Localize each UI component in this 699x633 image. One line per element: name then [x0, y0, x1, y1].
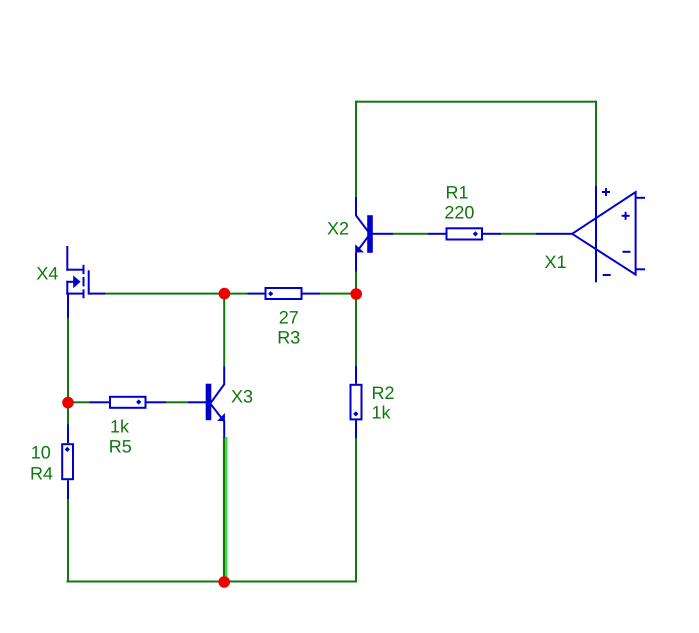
resistor R4 [62, 425, 73, 500]
transistor X3 emitter [211, 404, 225, 438]
op-amp X1 power pin line [595, 186, 597, 283]
resistor R2 [351, 366, 362, 438]
wire node C to R5 [73, 401, 90, 403]
transistor X4 gate [88, 270, 105, 294]
node A junction dot [219, 288, 231, 300]
wire bottom rail [67, 581, 358, 583]
svg-text:220: 220 [444, 203, 474, 223]
wire X3 emitter highlight bright part [225, 437, 227, 577]
transistor X2 body bar [367, 215, 373, 253]
transistor X3 base lead [188, 401, 206, 403]
svg-text:X4: X4 [36, 263, 58, 283]
svg-text:R2: R2 [372, 383, 395, 403]
svg-text:X1: X1 [545, 252, 567, 272]
op-amp X1 input stubs [636, 197, 646, 270]
svg-text:R5: R5 [109, 436, 132, 456]
transistor X2 collector [356, 197, 370, 234]
transistor X2 emitter [356, 234, 370, 271]
wire R4 to bottom rail [67, 499, 69, 583]
wire X4 gate to node A [104, 293, 225, 295]
node C junction dot [62, 397, 74, 409]
svg-text:10: 10 [31, 443, 51, 463]
transistor X4 source leads [66, 281, 83, 318]
svg-text:X2: X2 [327, 218, 349, 238]
wire R2 to bottom rail [355, 438, 357, 583]
svg-text:R4: R4 [30, 464, 53, 484]
transistor X2 emitter arrow [355, 244, 364, 252]
wire R5 to X3 base [166, 401, 188, 403]
transistor X4 drain stub [66, 246, 83, 271]
wire R1 to op-amp output [501, 233, 536, 235]
transistor X3 emitter arrow [217, 413, 225, 421]
svg-text:X3: X3 [231, 386, 253, 406]
op-amp X1 plus input label [622, 212, 630, 220]
op-amp X1 minus power label [603, 274, 611, 276]
wire X3 emitter highlighted dark part [223, 437, 225, 577]
svg-text:1k: 1k [372, 403, 392, 423]
transistor X4 channel bars [83, 265, 85, 299]
node B junction dot [350, 288, 362, 300]
transistor X3 collector [211, 367, 225, 404]
wire node C to R4 [67, 408, 69, 425]
wire node A to R3 [225, 293, 248, 295]
op-amp X1 triangle [572, 192, 636, 275]
transistor X4 arrow [73, 275, 80, 288]
svg-text:R3: R3 [277, 327, 300, 347]
svg-text:27: 27 [279, 307, 299, 327]
wire X3 collector to node A [223, 294, 225, 367]
resistor R3 [248, 288, 321, 299]
op-amp X1 plus power label [602, 188, 610, 196]
resistor R1 [428, 228, 501, 239]
wire top feedback horizontal [355, 101, 597, 103]
wire R3 to node B [320, 293, 356, 295]
node D bottom junction dot [218, 576, 230, 588]
op-amp X1 minus input label [623, 251, 631, 253]
resistor R5 [90, 397, 167, 408]
transistor X2 base lead [372, 233, 393, 235]
op-amp X1 output lead [536, 233, 572, 235]
wire X2 base to R1 [393, 233, 428, 235]
wire feedback left vertical [355, 101, 357, 198]
transistor X3 body bar [206, 384, 212, 421]
wire feedback right vertical [595, 101, 597, 186]
wire X4 source down to node C [67, 318, 69, 403]
wire node B to R2 [355, 294, 357, 366]
svg-text:R1: R1 [446, 183, 469, 203]
svg-text:1k: 1k [110, 416, 130, 436]
wire X2 emitter to node B [355, 271, 357, 294]
